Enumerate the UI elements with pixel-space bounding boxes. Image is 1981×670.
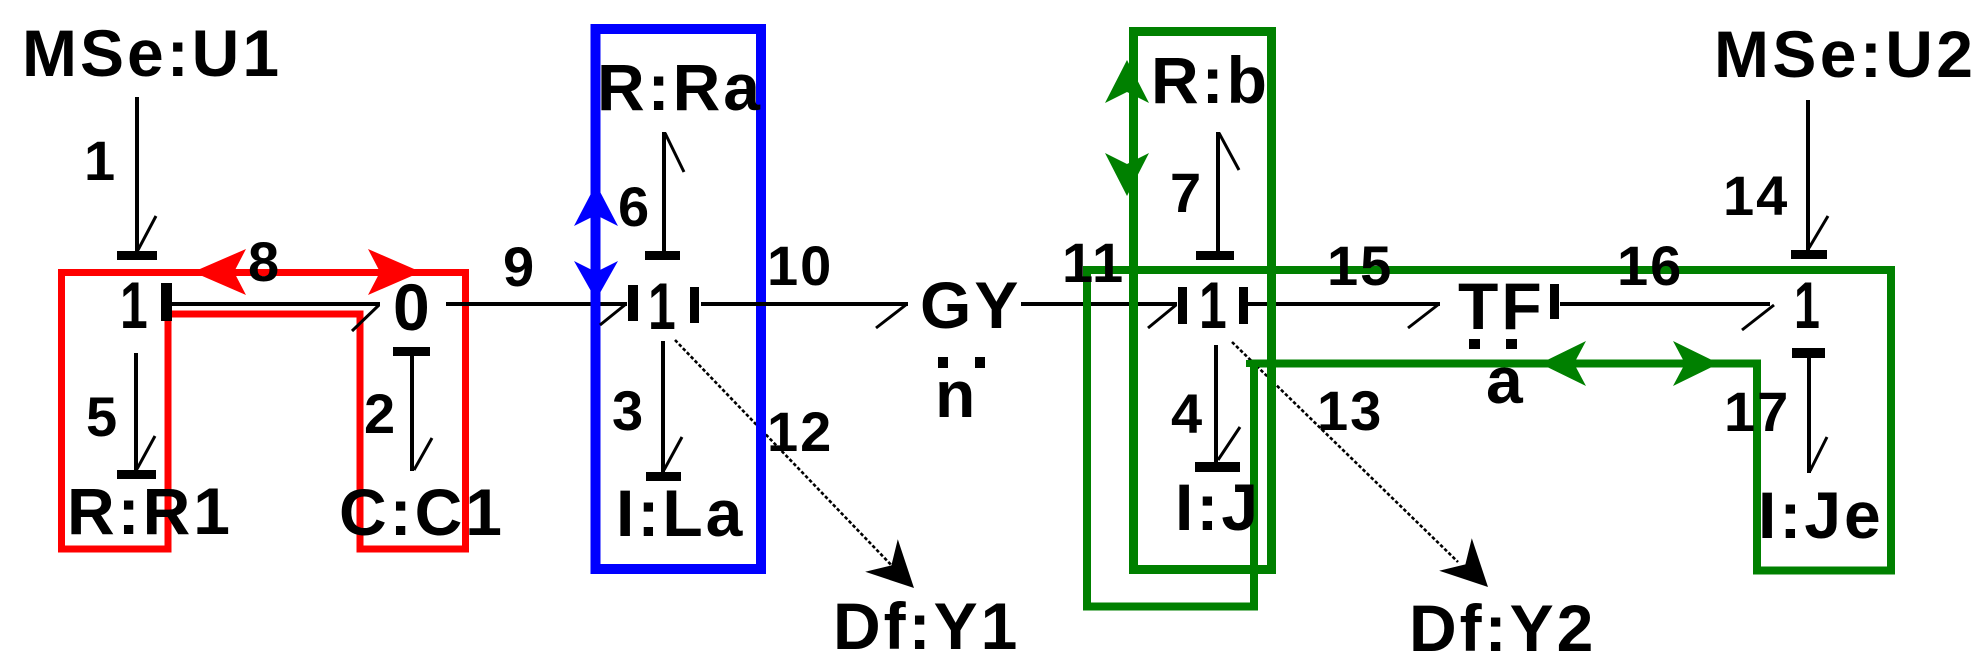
1-junction middle causal stroke right	[690, 287, 699, 323]
red double arrow right head	[368, 249, 421, 295]
green box edge over bond 11 wire	[1083, 294, 1091, 316]
svg-text:2: 2	[364, 382, 397, 445]
green horizontal double arrow left head	[1540, 341, 1586, 386]
svg-text:8: 8	[248, 230, 281, 293]
svg-text:17: 17	[1724, 380, 1790, 443]
svg-text:TF: TF	[1458, 269, 1545, 343]
1-junction middle causal stroke left	[628, 285, 638, 321]
bond 7 causal stroke	[1196, 251, 1234, 260]
bond 8 half-arrow	[352, 305, 379, 331]
bond 11 causal stroke	[1178, 287, 1187, 324]
svg-text:1: 1	[1199, 268, 1229, 342]
svg-text:0: 0	[393, 270, 433, 344]
bond 2 wire	[410, 356, 414, 471]
red box around 1-junction, R:R1, 0-junction, C:C1	[62, 273, 466, 550]
blue box around R:Ra, I:La	[596, 29, 762, 569]
svg-text:11: 11	[1062, 231, 1125, 294]
bond 6 wire	[662, 132, 666, 251]
svg-text:14: 14	[1723, 164, 1789, 227]
svg-text:12: 12	[767, 400, 833, 463]
bond 11 half-arrow	[1148, 305, 1176, 328]
bond 16 causal stroke	[1550, 284, 1559, 319]
green box edge over bond 13 wire	[1250, 360, 1258, 381]
red double arrow left head	[193, 249, 246, 295]
bond 2 causal stroke	[393, 347, 430, 356]
svg-text:5: 5	[86, 385, 119, 448]
bond 1 wire	[135, 97, 139, 252]
svg-text:1: 1	[1794, 268, 1822, 342]
svg-text:GY: GY	[920, 268, 1021, 342]
bond 8 causal stroke	[161, 283, 172, 321]
svg-text:Df:Y2: Df:Y2	[1409, 591, 1596, 665]
green tall box around R:b, I:J	[1134, 32, 1272, 570]
svg-text:10: 10	[767, 234, 833, 297]
bond 3 wire	[661, 341, 665, 472]
svg-text:R:b: R:b	[1151, 43, 1270, 117]
green box edge over bond 13 wire	[1267, 368, 1276, 392]
svg-text:Df:Y1: Df:Y1	[833, 589, 1020, 663]
green horizontal double arrow right head	[1673, 341, 1719, 386]
svg-text:n: n	[935, 357, 978, 431]
svg-text:15: 15	[1327, 234, 1393, 297]
bond 7 wire	[1216, 132, 1220, 251]
svg-text:I:J: I:J	[1175, 470, 1261, 544]
bond 5 wire	[134, 353, 138, 471]
bond 4 wire	[1214, 345, 1218, 462]
bond 17 causal stroke	[1792, 348, 1825, 358]
bond 9 half-arrow	[600, 304, 626, 325]
bond 13 wire	[1232, 342, 1458, 562]
svg-text:13: 13	[1317, 379, 1383, 442]
bond 8 wire	[172, 302, 380, 306]
bond 10 half-arrow	[876, 304, 907, 328]
blue box edge over bond 12 wire	[756, 418, 766, 442]
bond 17 half-arrow	[1810, 437, 1827, 471]
bond 3 half-arrow	[664, 437, 682, 470]
bond 11 wire	[1021, 302, 1177, 306]
bond 5 half-arrow	[137, 436, 155, 469]
bond 7 half-arrow	[1219, 133, 1239, 170]
bond 14 half-arrow	[1809, 216, 1828, 248]
bond 2 half-arrow	[414, 438, 432, 470]
bond 12 arrowhead	[865, 539, 914, 588]
svg-text:a: a	[1486, 343, 1526, 417]
bond 3 causal stroke	[646, 472, 681, 481]
bond 14 causal stroke	[1791, 250, 1827, 259]
svg-text:I:La: I:La	[616, 476, 745, 550]
svg-text:1: 1	[648, 269, 678, 343]
svg-text:MSe:U1: MSe:U1	[22, 16, 282, 90]
svg-text:1: 1	[84, 129, 117, 192]
svg-text:MSe:U2: MSe:U2	[1714, 17, 1976, 91]
bond 5 causal stroke	[117, 470, 156, 479]
bond 6 causal stroke	[645, 251, 680, 260]
bond 4 causal stroke	[1195, 462, 1240, 472]
svg-text:3: 3	[612, 379, 645, 442]
bond 15 wire	[1248, 302, 1440, 306]
green box edge over bond 15 wire	[1267, 294, 1276, 316]
svg-text:R:R1: R:R1	[67, 474, 233, 548]
GY dots	[938, 357, 948, 368]
TF dots	[1469, 339, 1480, 349]
bond 15 half-arrow	[1408, 304, 1439, 328]
bond 1 half-arrow	[138, 216, 156, 250]
1-junction right-middle causal stroke right	[1239, 287, 1248, 324]
svg-text:16: 16	[1617, 234, 1683, 297]
bond 6 half-arrow	[665, 133, 684, 172]
bond 16 half-arrow	[1742, 305, 1774, 330]
svg-text:C:C1: C:C1	[339, 475, 505, 549]
svg-text:6: 6	[618, 175, 651, 238]
svg-text:I:Je: I:Je	[1758, 478, 1884, 552]
green big box around 1-junction, TF, 1-junction, I:Je	[1087, 270, 1891, 607]
bond 14 wire	[1806, 100, 1810, 251]
bond 16 wire	[1560, 302, 1770, 306]
svg-text:1: 1	[120, 268, 150, 342]
bond 4 half-arrow	[1218, 427, 1240, 460]
green vertical double arrow down head	[1105, 153, 1149, 196]
blue double arrow up head	[574, 184, 618, 226]
svg-text:R:Ra: R:Ra	[597, 50, 763, 124]
bond 10 wire	[701, 302, 908, 306]
bond 9 wire	[446, 302, 627, 306]
bond 17 wire	[1807, 358, 1811, 473]
green box edge over bond 11 wire	[1129, 294, 1138, 316]
bond 12 wire	[675, 340, 897, 571]
green box corner join	[1246, 360, 1270, 367]
svg-text:9: 9	[503, 235, 536, 298]
blue double arrow down head	[574, 261, 618, 300]
green vertical double arrow up head	[1105, 60, 1149, 103]
bond 13 arrowhead	[1439, 538, 1488, 587]
bond 1 causal stroke	[117, 251, 157, 260]
svg-text:4: 4	[1171, 382, 1204, 445]
svg-text:7: 7	[1170, 161, 1203, 224]
blue box edge over bond 9 wire	[591, 294, 601, 316]
